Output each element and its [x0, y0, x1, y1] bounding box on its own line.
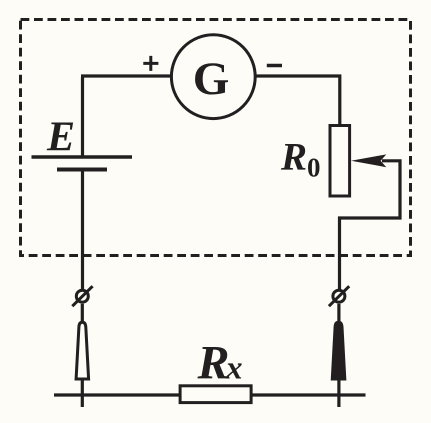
svg-text:R: R: [197, 336, 230, 389]
svg-text:x: x: [225, 350, 243, 386]
galvanometer G: [171, 35, 255, 119]
wire right probe through node: [337, 380, 340, 407]
svg-text:G: G: [193, 53, 230, 105]
right binding post terminal: [333, 290, 345, 302]
dashed enclosure box: [21, 20, 411, 256]
wire battery bottom to lower-left terminal: [81, 170, 84, 290]
svg-text:R: R: [280, 135, 307, 178]
right test probe (filled): [332, 322, 345, 379]
label + (polarity): [143, 56, 158, 71]
wire right terminal to probe: [337, 304, 340, 323]
wiper wire down-jog to lower-right terminal: [340, 159, 402, 289]
battery E short plate: [57, 168, 107, 172]
left binding post terminal: [76, 290, 88, 302]
wire galvanometer to rheostat R0: [257, 74, 340, 126]
right terminal slash: [329, 286, 349, 306]
wiper arrow of R0: [351, 154, 386, 167]
resistor Rx body: [180, 386, 251, 403]
battery E long plate: [32, 155, 133, 159]
left terminal slash: [72, 286, 92, 306]
left test probe (open): [76, 322, 89, 379]
wire left probe through node: [81, 380, 84, 407]
wire battery top to galvanometer (node +): [81, 76, 170, 158]
svg-text:0: 0: [307, 153, 321, 183]
svg-text:E: E: [46, 115, 75, 161]
label - (polarity): [267, 64, 282, 68]
rheostat R0 body: [330, 126, 350, 197]
bottom wire: [54, 393, 366, 396]
wire left terminal to probe: [81, 304, 84, 323]
